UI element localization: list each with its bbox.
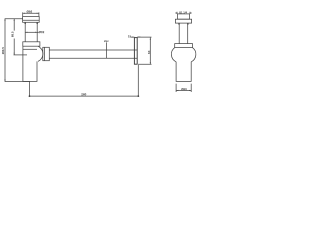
svg-text:G1 1/4: G1 1/4: [179, 10, 188, 14]
thread (right view): [178, 14, 190, 19]
arrow: Ø32 right: [35, 32, 37, 33]
ball arc left (right view): [171, 47, 176, 61]
wire: flange height dim line: [149, 38, 151, 65]
flange top (left view): [23, 17, 40, 23]
arrow: right bottom dim left: [176, 90, 178, 91]
arrow: outer dim top: [5, 19, 6, 21]
tailpipe tube (left view): [25, 22, 37, 42]
wire: flange height dim extensions: [138, 37, 152, 64]
wire: right view bottom dim extensions: [176, 84, 191, 92]
svg-text:160.5: 160.5: [1, 47, 5, 55]
svg-text:15: 15: [128, 34, 132, 38]
svg-text:Ø56: Ø56: [26, 10, 32, 14]
wire: nut internal line: [43, 47, 45, 60]
wire: left inner dim line: [13, 19, 15, 55]
wire: left view top dimension line (Ø56): [23, 12, 39, 14]
arrow: outer dim bottom: [5, 79, 6, 81]
wire: tube top gasket nubs (left view): [25, 23, 37, 24]
outlet nut with compression ring: [43, 47, 50, 60]
ball arc right (right view): [191, 47, 196, 61]
svg-text:260: 260: [81, 92, 86, 96]
outlet pipe: [49, 50, 137, 58]
wire: left outer dim extension top: [5, 18, 23, 20]
wire: tube top gasket nubs (right view): [179, 23, 188, 24]
wire: left inner dim extension bottom: [14, 54, 28, 56]
arrow: Ø32 left: [25, 32, 27, 33]
dimension texts: [1, 10, 188, 97]
wire: flange thickness dim: [131, 36, 141, 38]
wire: flange internal line: [23, 19, 40, 21]
tube (right view): [179, 23, 188, 43]
arrow: projection dim right: [137, 95, 139, 97]
wire: Ø32 leader line across tube: [25, 31, 39, 33]
wire: right view thread dim ticks: [175, 12, 191, 14]
nut (left view): [23, 42, 40, 46]
svg-text:68.5: 68.5: [11, 31, 15, 37]
arrowheads: [5, 13, 192, 97]
arrow: top dim left: [23, 13, 25, 14]
svg-text:Ø32: Ø32: [39, 30, 45, 34]
arrow: flange height top: [150, 38, 151, 40]
wire: left outer dim extension bottom: [5, 81, 30, 83]
nut (right view): [175, 44, 193, 48]
flange (right view): [175, 19, 191, 23]
arrow: flange thickness right: [137, 37, 139, 38]
arrow: inner dim top: [14, 19, 15, 21]
outlet ball arc: [38, 46, 43, 61]
wire: body joint line: [23, 48, 37, 50]
wall flange: [134, 38, 137, 65]
arrow: flange thickness left: [132, 37, 134, 38]
wire: left view top dim extension ticks: [23, 12, 39, 16]
wire: right view bottom dim line: [176, 89, 191, 91]
svg-text:63: 63: [147, 50, 151, 54]
wire: left outer dim line: [4, 19, 6, 82]
arrow: inner dim bottom: [14, 53, 15, 55]
svg-text:Ø90: Ø90: [181, 87, 187, 91]
arrow: right bottom dim right: [189, 90, 191, 91]
arrow: top dim right: [37, 13, 39, 14]
arrow: projection dim left: [29, 95, 31, 97]
wire: pipe joint tick: [106, 42, 108, 58]
body (right view): [176, 62, 191, 82]
bottle body (left view): [23, 46, 37, 81]
svg-text:Ø32: Ø32: [104, 40, 109, 43]
arrow: flange height bottom: [150, 62, 151, 64]
wire: bottom projection dim: [30, 65, 139, 96]
